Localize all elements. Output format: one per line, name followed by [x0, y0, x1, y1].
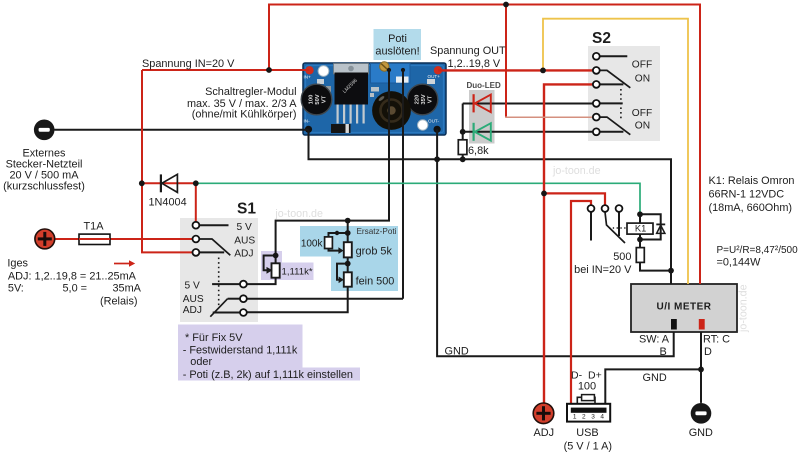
svg-text:oder: oder — [190, 356, 212, 368]
dashed link S1 — [218, 258, 220, 309]
wire relay lever — [605, 212, 625, 243]
svg-text:OFF: OFF — [632, 108, 652, 119]
capacitor output 220uF — [407, 84, 438, 115]
node poti rail to Ersatz chain — [345, 218, 351, 224]
node poti pin1 — [387, 68, 391, 72]
svg-text:* Für Fix 5V: * Für Fix 5V — [185, 332, 243, 344]
svg-text:50V: 50V — [315, 94, 321, 104]
meter terminal red — [699, 319, 705, 330]
resistor 100k — [325, 237, 333, 249]
svg-text:1: 1 — [573, 414, 577, 421]
wire relay NC contact down — [590, 212, 592, 241]
relay K1 box — [627, 223, 653, 234]
LED red (Duo-LED) — [474, 94, 491, 112]
svg-text:grob 5k: grob 5k — [356, 246, 393, 258]
switch S2 panel — [588, 46, 660, 141]
wire S1 lower ADJ stub — [213, 312, 240, 314]
svg-text:Poti: Poti — [388, 33, 407, 45]
wire S2 lever group1 — [600, 70, 631, 87]
wire S2 c1 stub — [600, 55, 628, 57]
pad IN+ — [305, 66, 313, 74]
svg-text:1N4004: 1N4004 — [149, 197, 187, 209]
svg-text:RT: C: RT: C — [703, 334, 730, 346]
svg-text:fein 500: fein 500 — [356, 276, 395, 288]
switch S2 contacts — [593, 53, 600, 135]
module hole bottom-right — [418, 120, 428, 130]
wire S1 upper ADJ stub — [199, 251, 224, 253]
svg-text:OUT-: OUT- — [428, 119, 439, 124]
svg-text:AUS: AUS — [183, 294, 204, 305]
svg-text:6,8k: 6,8k — [468, 145, 489, 157]
svg-text:Ersatz-Poti: Ersatz-Poti — [356, 227, 396, 236]
labels S2 positions — [632, 59, 652, 131]
wire plus terminal through fuse to S1 AUS — [55, 238, 192, 240]
wire pale red to S2 c5 — [506, 116, 592, 117]
wire grob wiper loop — [337, 264, 348, 280]
wire meter D to GND terminal — [700, 332, 702, 403]
USB connector — [567, 404, 610, 422]
svg-text:(Relais): (Relais) — [100, 295, 138, 307]
wire S2 c3 stub — [600, 83, 624, 85]
wire S1 lower lever — [210, 299, 227, 317]
labels S1 lower rows — [183, 281, 204, 316]
wire red left vertical to S1 ADJ — [142, 70, 192, 252]
node grob-fein junction — [345, 261, 351, 267]
terminal ADJ — [533, 403, 554, 424]
inductor toroid — [372, 91, 411, 130]
svg-text:VT: VT — [428, 95, 434, 103]
svg-text:GND: GND — [689, 427, 713, 439]
arrow 1,111k wiper — [267, 267, 273, 274]
svg-text:AUS: AUS — [234, 236, 255, 247]
dashed link S2 — [620, 89, 622, 121]
node red trunk to relay branch — [541, 191, 547, 197]
Duo-LED strip — [469, 90, 495, 144]
svg-text:ADJ: ADJ — [183, 305, 202, 316]
silk labels — [304, 74, 441, 124]
svg-text:jo-toon.de: jo-toon.de — [738, 284, 750, 333]
wire red branch to S2 c5 vertical — [505, 5, 507, 118]
wire S1 lower AUS stub — [228, 298, 240, 300]
node diode anode junction — [139, 180, 145, 186]
trimmer potentiometer — [371, 62, 411, 83]
wire S2 c6 stub — [600, 131, 624, 133]
svg-text:5V:: 5V: — [8, 283, 24, 295]
svg-text:OUT+: OUT+ — [428, 74, 441, 79]
wire OUT- bus down, bottom GND to meter B — [437, 130, 674, 357]
svg-text:Iges: Iges — [7, 257, 28, 269]
wire S1 lower AUS row — [247, 298, 403, 300]
svg-text:ON: ON — [635, 73, 650, 84]
svg-text:jo-toon.de: jo-toon.de — [274, 208, 323, 220]
wire green LED row to S2 — [463, 131, 593, 133]
svg-text:IN-: IN- — [304, 119, 311, 124]
svg-text:USB: USB — [576, 427, 598, 439]
wire LED feed vertical to 6.8k — [462, 104, 464, 160]
U/I METER box — [631, 284, 737, 332]
wire IN- down and GND bus to meter — [309, 130, 672, 285]
svg-text:B: B — [660, 346, 667, 358]
svg-text:ADJ: 1,2..19,8 = 21..25mA: ADJ: 1,2..19,8 = 21..25mA — [8, 270, 137, 282]
wire 1,111k wiper loop — [264, 256, 276, 271]
wire relay NO contact down — [618, 212, 620, 236]
arrow fein wiper — [339, 277, 344, 284]
LED green (Duo-LED) — [474, 123, 491, 141]
wire S1 lower 5V stub — [212, 283, 240, 285]
svg-text:2: 2 — [582, 414, 586, 421]
wire yellow OUT+ to meter — [543, 19, 688, 284]
svg-text:35V: 35V — [421, 94, 427, 104]
resistor fein 500 — [344, 272, 352, 286]
RED WIRES — [55, 5, 700, 404]
svg-text:K1: Relais Omron: K1: Relais Omron — [709, 175, 795, 187]
pad OUT+ — [434, 66, 442, 74]
node poti pin2 — [401, 68, 405, 72]
svg-text:(ohne/mit Kühlkörper): (ohne/mit Kühlkörper) — [192, 109, 297, 121]
node green LED branch — [460, 129, 466, 135]
wire diode segment — [142, 182, 196, 184]
wire S1 upper 5V stub — [199, 224, 228, 226]
node 100k top junction b — [345, 230, 351, 236]
module hole top-left — [318, 66, 329, 77]
MODULE PHOTO — [301, 62, 446, 135]
wire poti pin1 to 1,111k and S1 5V — [247, 70, 389, 284]
svg-text:4: 4 — [600, 414, 604, 421]
pad IN- — [305, 126, 312, 133]
wire relay NC to USB 5V — [571, 201, 591, 404]
svg-text:D: D — [704, 346, 712, 358]
wire USB pin4 GND up and right — [605, 369, 701, 403]
terminal plus (Externes Netzteil) — [35, 229, 55, 249]
svg-text:5 V: 5 V — [237, 222, 252, 233]
node top rail to c5 branch — [503, 2, 509, 8]
note purple box — [178, 325, 360, 381]
wire K1 diode branch — [640, 214, 661, 239]
svg-text:K1: K1 — [635, 224, 646, 234]
node OUT- bus on GND bus — [434, 156, 440, 162]
wire K1 coil bottom to 500 to GND vertical — [640, 234, 671, 271]
meter terminal black — [671, 319, 677, 330]
module smd bits — [317, 79, 324, 84]
Ersatz-Poti box — [300, 226, 398, 291]
node K1 coil bottom junction — [637, 237, 643, 243]
svg-text:5 V: 5 V — [185, 281, 200, 292]
fuse T1A — [79, 234, 110, 244]
module PCB board — [303, 63, 446, 135]
wire S1 upper lever — [199, 239, 230, 255]
svg-text:OFF: OFF — [632, 59, 652, 70]
labels S1 upper rows — [234, 222, 255, 260]
svg-text:U/I METER: U/I METER — [656, 301, 711, 312]
terminal minus (Externes Netzteil) — [34, 120, 55, 141]
wire diode junction to S1 5V — [195, 183, 197, 222]
node 100k top junction a — [335, 231, 339, 235]
svg-text:66RN-1 12VDC: 66RN-1 12VDC — [709, 189, 785, 201]
svg-text:- Poti (z.B, 2k) auf 1,111k ei: - Poti (z.B, 2k) auf 1,111k einstellen — [183, 369, 353, 381]
svg-text:Schaltregler-Modul: Schaltregler-Modul — [205, 86, 296, 98]
node meter D GND junction — [698, 367, 704, 373]
node 6.8k on GND bus — [460, 156, 466, 162]
svg-text:- Festwiderstand 1,111k: - Festwiderstand 1,111k — [183, 345, 298, 357]
svg-text:IN+: IN+ — [304, 75, 312, 80]
regulator IC LM2596 — [334, 64, 369, 124]
svg-text:3: 3 — [591, 414, 595, 421]
arrow 100k wiper — [338, 247, 343, 254]
svg-text:(18mA, 660Ohm): (18mA, 660Ohm) — [709, 202, 793, 214]
resistor 100 (USB) — [582, 395, 595, 401]
svg-text:ADJ: ADJ — [534, 427, 555, 439]
svg-text:S2: S2 — [592, 30, 611, 47]
node OUT+ / yellow junction — [540, 68, 546, 74]
svg-text:500: 500 — [613, 251, 631, 263]
wire minus terminal to IN- — [55, 129, 309, 131]
svg-text:S1: S1 — [237, 201, 256, 218]
wire poti pin2 down — [402, 70, 404, 299]
resistor 6,8k — [458, 140, 467, 155]
switch S1 panel — [180, 218, 258, 322]
node 1,111k top junction — [273, 253, 279, 259]
wire USB notch — [577, 397, 595, 404]
switch S1 contacts — [193, 222, 247, 316]
diode D1 1N4004 — [161, 174, 178, 192]
pad OUT- — [434, 126, 441, 133]
svg-text:100: 100 — [309, 95, 315, 105]
svg-text:ADJ: ADJ — [234, 249, 253, 260]
wire S2 ON down to ADJ terminal — [544, 84, 592, 403]
wire OUT+ to S2 — [438, 69, 592, 71]
wire 100k branch — [329, 233, 348, 251]
svg-text:Duo-LED: Duo-LED — [467, 81, 501, 90]
svg-text:5,0 =: 5,0 = — [63, 283, 88, 295]
wire S2 c4 stub — [600, 102, 623, 104]
wire Spannung IN — [142, 69, 310, 71]
wire Ersatz-Poti chain — [247, 221, 348, 313]
resistor 1,111k — [272, 263, 280, 277]
terminal GND — [691, 403, 712, 424]
resistor 500 (relay) — [636, 248, 644, 263]
wire K1 coil top — [639, 214, 641, 223]
node diode cathode junction — [193, 180, 199, 186]
svg-text:Spannung IN=20 V: Spannung IN=20 V — [142, 58, 235, 70]
svg-text:(5 V / 1 A): (5 V / 1 A) — [564, 440, 612, 452]
wire S2 lever group2 — [600, 117, 631, 135]
labels USB pins — [573, 414, 605, 421]
node 500 to GND vertical junction — [668, 268, 674, 274]
wire branch to relay common — [544, 193, 605, 205]
wire red top rail — [269, 5, 700, 285]
svg-text:VT: VT — [322, 95, 328, 103]
svg-text:jo-toon.de: jo-toon.de — [552, 165, 601, 177]
svg-text:(kurzschlussfest): (kurzschlussfest) — [3, 180, 85, 192]
svg-text:1,111k*: 1,111k* — [282, 266, 313, 277]
dotted link relay K1 — [609, 227, 627, 229]
node green to K1 junction — [637, 211, 643, 217]
1,111k purple highlight — [261, 251, 314, 280]
wire green from diode to K1 — [196, 183, 640, 214]
resistor grob 5k — [344, 242, 352, 257]
svg-text:SW: A: SW: A — [639, 334, 670, 346]
svg-text:100k: 100k — [301, 238, 324, 249]
BLACK WIRES — [55, 56, 702, 404]
svg-text:=0,144W: =0,144W — [717, 256, 762, 268]
Poti ausloeten callout box — [374, 29, 422, 60]
svg-text:auslöten!: auslöten! — [375, 46, 419, 58]
svg-text:ON: ON — [635, 121, 650, 132]
node top-left rail junction — [266, 67, 272, 73]
wire red LED row to S2 — [463, 103, 593, 105]
svg-text:35mA: 35mA — [113, 283, 142, 295]
svg-text:1,2..19,8 V: 1,2..19,8 V — [448, 58, 501, 70]
capacitor input 100uF — [301, 84, 332, 115]
svg-text:220: 220 — [415, 95, 421, 105]
diode SS34 on module — [331, 124, 351, 133]
svg-text:P=U²/R=8,47²/500: P=U²/R=8,47²/500 — [717, 245, 799, 256]
svg-text:Spannung OUT: Spannung OUT — [430, 45, 506, 57]
relay K1 contacts — [588, 205, 623, 212]
svg-text:GND: GND — [643, 372, 667, 384]
svg-text:bei IN=20 V: bei IN=20 V — [574, 264, 632, 276]
svg-text:100: 100 — [578, 380, 596, 392]
arrow Iges red — [114, 260, 135, 266]
svg-text:T1A: T1A — [84, 220, 105, 232]
svg-text:GND: GND — [445, 346, 469, 358]
diode flyback (K1) — [656, 224, 665, 233]
